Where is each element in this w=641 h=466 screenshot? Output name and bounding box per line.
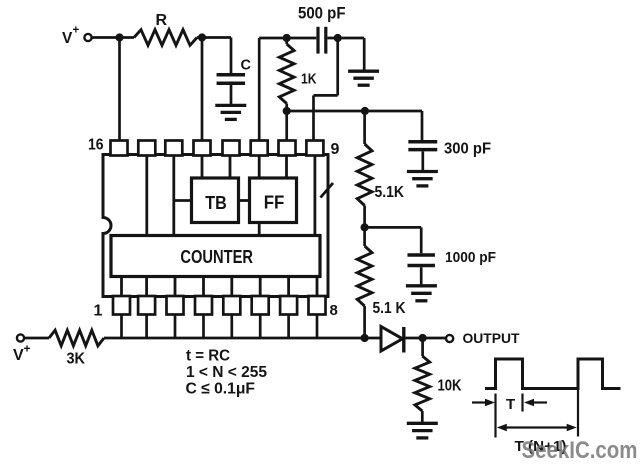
svg-text:500 pF: 500 pF: [298, 3, 346, 22]
svg-text:V: V: [62, 30, 73, 47]
svg-text:16: 16: [88, 136, 104, 153]
svg-text:C: C: [241, 58, 252, 74]
svg-text:+: +: [24, 342, 31, 356]
svg-text:TB: TB: [205, 193, 227, 213]
svg-text:5.1K: 5.1K: [375, 184, 405, 201]
svg-text:T: T: [506, 396, 515, 413]
svg-text:1K: 1K: [301, 70, 317, 87]
svg-text:3K: 3K: [67, 351, 86, 368]
svg-text:COUNTER: COUNTER: [180, 247, 253, 267]
svg-text:t = RC: t = RC: [186, 347, 230, 364]
svg-text:C ≤ 0.1μF: C ≤ 0.1μF: [186, 380, 256, 397]
svg-text:R: R: [156, 12, 168, 29]
svg-text:10K: 10K: [438, 378, 463, 395]
svg-text:OUTPUT: OUTPUT: [463, 331, 521, 346]
svg-text:SeekIC.com: SeekIC.com: [522, 437, 638, 464]
svg-text:V: V: [13, 347, 24, 364]
svg-text:+: +: [73, 24, 80, 36]
svg-text:1 < N < 255: 1 < N < 255: [186, 364, 267, 381]
svg-text:8: 8: [330, 302, 338, 319]
svg-text:1: 1: [94, 303, 103, 320]
svg-text:300 pF: 300 pF: [444, 140, 491, 157]
svg-text:5.1 K: 5.1 K: [373, 300, 407, 317]
svg-text:9: 9: [331, 141, 340, 158]
svg-text:1000 pF: 1000 pF: [445, 249, 496, 266]
svg-text:FF: FF: [264, 193, 285, 213]
